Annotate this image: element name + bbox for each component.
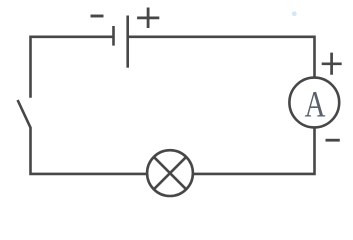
switch S1 (open blade) bbox=[18, 100, 31, 128]
faint speck bbox=[292, 11, 297, 16]
wire from ammeter up and top-right segment to battery + bbox=[128, 37, 315, 78]
battery B1 negative short plate bbox=[112, 26, 115, 46]
battery B1 positive long plate bbox=[126, 16, 129, 68]
wire from lamp along bottom and up right to ammeter bbox=[194, 128, 315, 174]
label plus at ammeter bbox=[322, 53, 342, 75]
wire from switch down and bottom-left to lamp bbox=[31, 128, 147, 174]
lamp L1 circle bbox=[147, 150, 193, 196]
svg-text:A: A bbox=[305, 84, 326, 125]
lamp L1 cross bbox=[153, 156, 187, 190]
label plus at battery bbox=[137, 8, 159, 29]
label minus at ammeter bbox=[326, 139, 340, 142]
wire top-left segment and left vertical to switch bbox=[31, 37, 114, 98]
ammeter A1 circle bbox=[289, 78, 339, 128]
label minus at battery bbox=[91, 15, 104, 18]
